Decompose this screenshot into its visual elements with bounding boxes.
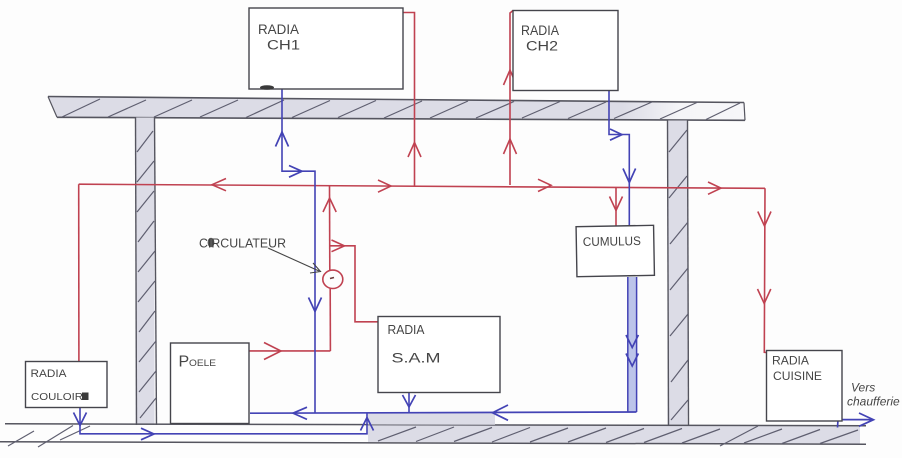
svg-text:P: P xyxy=(179,354,190,371)
blue arrows xyxy=(74,129,874,440)
pipe (blue) bottom return main xyxy=(250,412,637,413)
pipe (blue) RADIA CH2 return xyxy=(609,90,629,226)
svg-text:CUMULUS: CUMULUS xyxy=(583,234,641,249)
arrow right chaufferie outlet xyxy=(859,413,874,426)
pipe (red) feed to CUMULUS xyxy=(615,187,617,226)
ground floor slab xyxy=(0,424,866,447)
red arrows xyxy=(212,70,771,360)
radiator box RADIA CH2 xyxy=(513,11,618,91)
svg-text:RADIA: RADIA xyxy=(772,356,809,368)
arrow left bottom main near poele xyxy=(293,407,307,419)
arrow right ch1 jog xyxy=(289,166,302,178)
pipe (red) feed to RADIA CUISINE xyxy=(764,188,767,352)
arrow right floor channel xyxy=(141,428,154,440)
svg-text:RADIA: RADIA xyxy=(31,368,68,380)
svg-text:chaufferie: chaufferie xyxy=(847,395,900,409)
label CIRCULATEUR with leader arrow xyxy=(199,236,321,274)
arrow up riser CH2 upper xyxy=(504,70,517,85)
arrow up riser CH2 lower xyxy=(504,139,517,154)
arrow right poele outlet (big) xyxy=(264,343,281,360)
svg-text:CH1: CH1 xyxy=(267,38,300,53)
arrow down ch1 drop xyxy=(309,298,322,312)
arrow right on main x390 xyxy=(378,180,391,192)
arrow up circulator riser xyxy=(323,198,336,212)
pipe (red) POELE outlet xyxy=(250,350,331,352)
arrow down couloir drop xyxy=(74,413,87,426)
arrow down cumulus feed xyxy=(610,197,623,211)
svg-text:OELE: OELE xyxy=(189,358,216,369)
arrow left bottom main big xyxy=(493,405,509,420)
arrow up riser CH1 xyxy=(408,143,421,158)
svg-text:RADIA: RADIA xyxy=(521,23,559,38)
pipe (red) supply main horizontal xyxy=(79,184,765,188)
pipe (red) feed to RADIA COULOIR xyxy=(78,184,80,361)
svg-text:RADIA: RADIA xyxy=(388,323,426,337)
arrow down ch2 drop xyxy=(623,169,636,183)
radiator box RADIA CUISINE xyxy=(767,351,843,422)
pipe (red) branch to RADIA S.A.M xyxy=(330,246,378,322)
pipe (red) circulator riser lower xyxy=(329,288,331,351)
arrow up channel riser xyxy=(361,418,374,431)
stove box POELE xyxy=(171,343,250,424)
ceiling slab (first floor) xyxy=(48,97,745,121)
pipe (blue) outlet to chaufferie xyxy=(835,412,873,428)
pipe (blue) COULOIR return + floor channel xyxy=(80,408,367,434)
arrow left on main near couloir xyxy=(212,179,226,191)
circulator pump symbol xyxy=(323,270,343,288)
arrow right on main x720 xyxy=(708,182,721,194)
water heater box CUMULUS xyxy=(576,225,654,276)
pipe (red) circulator riser upper xyxy=(329,186,331,271)
radiator box RADIA CH1 xyxy=(249,8,403,90)
arrow down cuisine feed 2 xyxy=(758,289,771,304)
arrow down cuisine feed 1 xyxy=(758,212,771,227)
right wall column xyxy=(668,121,689,426)
arrow right branch to SAM xyxy=(332,240,345,252)
svg-text:CH2: CH2 xyxy=(526,39,558,54)
svg-text:COULOIR: COULOIR xyxy=(31,391,83,403)
pipe (blue) cumulus outlet double line xyxy=(628,277,637,412)
arrow up ch1 return xyxy=(276,132,289,147)
radiator box RADIA S.A.M xyxy=(378,317,500,393)
arrow down cumulus pipe 1 xyxy=(626,335,638,348)
pipe (blue) RADIA CH1 return xyxy=(282,89,315,413)
radiator box RADIA COULOIR xyxy=(26,362,108,408)
svg-text:RADIA: RADIA xyxy=(258,22,299,37)
pipe (red) riser to RADIA CH2 xyxy=(510,11,513,186)
svg-text:CUISINE: CUISINE xyxy=(773,371,822,383)
svg-text:Vers: Vers xyxy=(851,381,875,395)
svg-text:S.A.M: S.A.M xyxy=(392,351,441,366)
label vers chaufferie xyxy=(847,381,900,409)
arrow down sam drop xyxy=(403,395,416,407)
arrow right on main x550 xyxy=(538,179,551,191)
arrow right ch2 jog xyxy=(610,129,622,140)
arrow down cumulus pipe 2 xyxy=(626,354,638,367)
pipe (blue) RADIA S.A.M drop xyxy=(408,393,410,413)
pipe (red) riser to RADIA CH1 xyxy=(403,13,415,187)
concrete plinth under RADIA S.A.M xyxy=(368,412,495,424)
left wall column xyxy=(136,118,157,426)
